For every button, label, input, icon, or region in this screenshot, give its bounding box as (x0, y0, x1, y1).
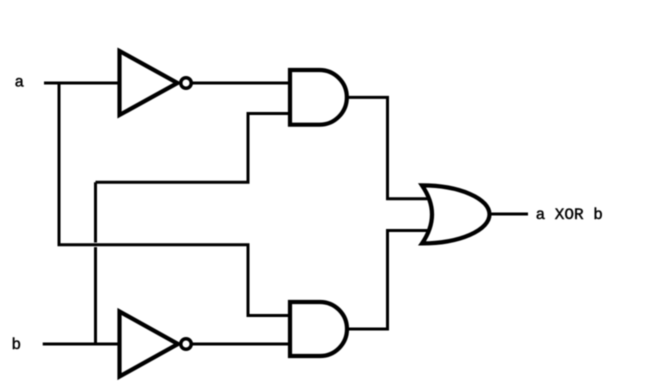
svg-text:a: a (15, 74, 25, 92)
svg-text:b: b (12, 336, 22, 354)
svg-text:a XOR b: a XOR b (536, 206, 603, 224)
